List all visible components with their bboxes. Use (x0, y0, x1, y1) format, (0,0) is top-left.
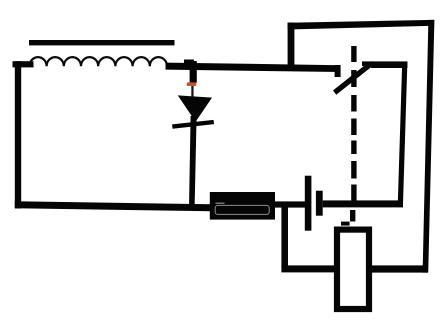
relay core bar (29, 40, 175, 45)
wire: left vertical (15, 61, 21, 208)
wire: tap vertical down to load (281, 205, 288, 267)
battery BT1 long plate (305, 176, 312, 231)
orange mark on diode stub (187, 82, 196, 86)
wire: thin link to diode (191, 86, 193, 97)
switch S1 blade (335, 64, 372, 93)
diode D1 (triangle) (178, 95, 212, 121)
switch S1 left contact hook (335, 65, 341, 77)
load R2 (rectangle outline) (337, 230, 369, 309)
mechanical link (dashed line) (341, 46, 357, 226)
wire: top-left stub (13, 61, 34, 67)
wire: bottom horizontal (15, 201, 212, 211)
node: diode tap junction (184, 60, 194, 64)
wire: outer loop top horizontal (288, 20, 434, 30)
wire: outer loop bottom to load right (372, 265, 428, 272)
wire: battery to right vertical (323, 200, 403, 207)
resistor R1 inner highlight outline (215, 205, 269, 214)
wire: diode anode stub (190, 61, 197, 83)
wire: lower horizontal to load left (281, 265, 337, 272)
battery BT1 short plate (316, 191, 323, 216)
inductor L1 (relay coil) (29, 57, 167, 66)
wire: outer loop left vertical (288, 23, 295, 71)
wire: inner right vertical (switch to battery) (398, 62, 408, 203)
switch S1 blade top serif (362, 61, 373, 66)
wire: switch right contact (371, 61, 407, 68)
resistor R1 inner tick (216, 203, 225, 204)
wire: outer loop right vertical (423, 20, 435, 273)
resistor R1 (filled body) (210, 192, 275, 220)
wire: top horizontal (coil to switch) (166, 63, 341, 72)
diode D1 cathode bar (172, 122, 214, 127)
wire: resistor to battery (275, 201, 306, 207)
wire: diode cathode tail to bottom wire (189, 116, 197, 208)
